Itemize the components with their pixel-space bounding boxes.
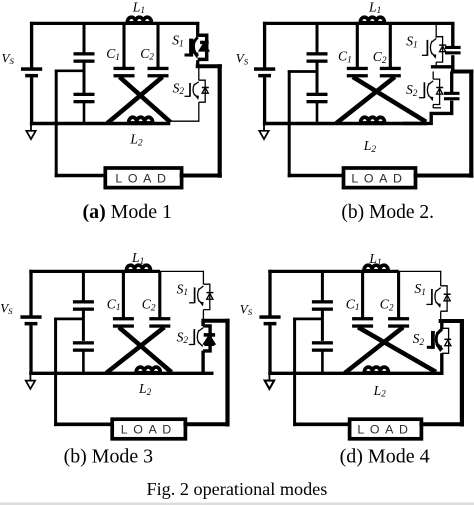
voltage source VS battery mode4 <box>259 315 280 325</box>
scan artifact bottom edge <box>0 503 474 505</box>
wire cross diagonal 2 mode2 <box>336 77 395 123</box>
capacitor C1 mode2 <box>347 67 368 78</box>
inductor L1 mode1 <box>127 17 151 25</box>
switch S2 IGBT bold mode4 <box>427 328 451 353</box>
wire S2 return mode1 <box>169 120 199 122</box>
capacitor C1 mode1 <box>114 67 135 78</box>
wire cross diagonal 2 mode4 <box>345 327 403 373</box>
wire filter cap column mode1 <box>83 23 86 52</box>
wire mid node horizontal mode1 <box>55 69 84 72</box>
svg-text:L2: L2 <box>129 132 143 149</box>
load block mode1 <box>105 168 181 188</box>
wire S2 rail top mode4 <box>440 321 443 329</box>
wire mid node column mode3 <box>54 318 57 427</box>
capacitor C2 mode1 <box>148 67 169 78</box>
wire cross diagonal 1 mode4 <box>358 327 436 372</box>
capacitor input lower mode1 <box>74 93 95 104</box>
svg-text:S1: S1 <box>414 281 425 298</box>
svg-text:C2: C2 <box>373 49 387 66</box>
wire source column bottom mode2 <box>263 77 266 125</box>
wire S1 rail top mode1 <box>196 22 199 37</box>
ground symbol mode2 <box>259 131 268 139</box>
capacitor C2 mode4 <box>388 317 409 328</box>
wire mid node horizontal mode4 <box>293 318 322 321</box>
wire output rail mode3 <box>225 319 229 427</box>
wire filter cap to bottom mode3 <box>82 352 85 374</box>
wire between filter caps mode1 <box>83 62 86 93</box>
wire ground stub mode1 <box>30 124 32 132</box>
wire bottom rail mode4 <box>268 372 443 375</box>
wire S2 rail top mode3 <box>201 321 204 326</box>
wire load right mode4 <box>419 422 464 426</box>
wire cross diagonal 1 mode1 <box>120 77 171 122</box>
wire junction bar mode2 <box>451 70 474 74</box>
wire between filter caps mode2 <box>316 62 319 93</box>
switch S2 IGBT mode2 <box>419 79 443 104</box>
svg-text:S1: S1 <box>172 33 183 50</box>
svg-text:C1: C1 <box>106 46 120 63</box>
switch S1 IGBT mode2 <box>422 37 446 62</box>
wire S1 rail top mode3 <box>202 271 204 285</box>
wire junction bar mode1 <box>196 64 222 68</box>
wire bottom rail mode2 <box>263 122 427 125</box>
wire main rail lower mode2 <box>451 55 454 73</box>
wire C2 column mode2 <box>389 23 392 67</box>
wire source column top mode4 <box>268 270 271 316</box>
ground symbol mode3 <box>26 381 35 389</box>
capacitor C2 mode2 <box>380 67 401 78</box>
switch S1 IGBT bold mode1 <box>185 35 209 59</box>
wire output rail mode1 <box>218 64 222 178</box>
wire staircase to bottom mode2 <box>402 101 452 124</box>
wire S2 rail bottom mode1 <box>198 102 200 121</box>
wire source column top mode2 <box>263 22 266 68</box>
svg-text:C1: C1 <box>107 296 121 313</box>
capacitor input upper mode1 <box>74 52 95 63</box>
wire S1 junction bar mode2 <box>431 65 453 68</box>
wire S2 rail bottom mode3 <box>201 351 204 375</box>
wire mid node horizontal mode3 <box>54 318 83 321</box>
capacitor input lower mode2 <box>307 93 328 104</box>
wire filter cap to bottom mode1 <box>83 103 86 124</box>
capacitor snubber CS2 mode2 <box>444 92 460 100</box>
svg-text:C2: C2 <box>140 46 154 63</box>
wire load left mode1 <box>55 174 108 178</box>
wire mid node column mode1 <box>55 70 58 178</box>
switch S1 IGBT mode3 <box>189 284 213 309</box>
wire ground stub mode4 <box>268 373 270 381</box>
switch S2 IGBT bold-diode mode3 <box>189 326 215 351</box>
capacitor snubber CS1 mode2 <box>445 46 461 54</box>
capacitor input lower mode4 <box>312 341 333 352</box>
wire load right mode1 <box>180 174 222 178</box>
voltage source VS battery mode1 <box>21 67 42 77</box>
capacitor input upper mode2 <box>307 52 328 63</box>
wire cross diagonal 2 mode3 <box>106 327 164 373</box>
svg-text:S1: S1 <box>406 34 417 51</box>
wire top rail mode4 <box>268 270 399 273</box>
svg-text:LOAD: LOAD <box>121 423 177 437</box>
wire load left mode3 <box>54 422 114 426</box>
wire mid node column mode4 <box>293 318 296 427</box>
wire S2 rail bottom mode4 <box>440 353 443 375</box>
wire source column top mode1 <box>30 22 33 68</box>
inductor L1 mode3 <box>126 265 150 273</box>
svg-text:L2: L2 <box>363 138 377 155</box>
wire source column bottom mode3 <box>29 325 32 375</box>
wire S2 emitter link mode2 <box>433 107 441 109</box>
svg-text:L2: L2 <box>373 383 387 400</box>
wire main rail upper mode2 <box>451 22 454 47</box>
svg-text:LOAD: LOAD <box>351 171 407 185</box>
wire cross diagonal 2 mode1 <box>107 77 162 123</box>
wire top rail mode1 <box>30 22 199 25</box>
capacitor input upper mode4 <box>312 300 333 311</box>
svg-text:VS: VS <box>236 51 249 67</box>
inductor L2 mode1 <box>129 117 153 125</box>
wire junction bar mode3 <box>201 319 229 323</box>
switch S1 IGBT mode4 <box>426 286 450 311</box>
wire C1 column mode4 <box>361 271 364 318</box>
wire S1 rail bottom mode1 <box>196 60 199 68</box>
svg-text:VS: VS <box>2 50 15 66</box>
inductor L2 mode3 <box>136 367 160 375</box>
voltage source VS battery mode2 <box>254 67 275 77</box>
wire S2 tap mode2 <box>432 72 434 80</box>
svg-text:C2: C2 <box>380 297 394 314</box>
capacitor C2 mode3 <box>149 317 170 328</box>
inductor L2 mode2 <box>361 117 385 125</box>
svg-text:C1: C1 <box>346 296 360 313</box>
wire ground stub mode3 <box>29 373 31 381</box>
load block mode3 <box>112 419 185 439</box>
svg-text:VS: VS <box>0 300 13 316</box>
wire mid node column mode2 <box>288 70 291 177</box>
wire C2 column mode4 <box>397 271 400 318</box>
wire top rail mode3 <box>29 270 160 273</box>
svg-text:(b) Mode 3: (b) Mode 3 <box>64 446 154 468</box>
wire load right mode2 <box>414 174 474 178</box>
wire S1 emitter stub mode2 <box>435 62 437 67</box>
wire S1 rail top mode4 <box>440 271 442 286</box>
wire bottom rail mode1 <box>30 122 170 125</box>
wire cross diagonal 1 mode2 <box>353 77 426 122</box>
capacitor C1 mode3 <box>113 317 134 328</box>
wire thin top segment mode4 <box>399 270 442 272</box>
capacitor C1 mode4 <box>352 317 373 328</box>
svg-text:S2: S2 <box>406 82 418 99</box>
svg-text:L1: L1 <box>132 0 145 16</box>
wire C2 column mode1 <box>156 23 159 67</box>
voltage source VS battery mode3 <box>20 315 41 325</box>
svg-text:C2: C2 <box>142 297 156 314</box>
wire filter cap to bottom mode2 <box>316 103 319 124</box>
svg-text:L2: L2 <box>138 381 152 398</box>
wire cross diagonal 1 mode3 <box>119 327 172 372</box>
wire C1 column mode3 <box>122 271 125 318</box>
wire filter cap column mode4 <box>321 271 324 300</box>
inductor L1 mode2 <box>360 17 384 25</box>
wire output rail mode4 <box>460 319 464 427</box>
svg-text:(a) Mode 1: (a) Mode 1 <box>83 201 173 223</box>
wire junction bar mode4 <box>439 319 464 323</box>
wire load left mode4 <box>293 422 352 426</box>
wire output rail mode2 <box>469 70 473 178</box>
wire load right mode3 <box>183 422 229 426</box>
wire S1 rail bottom mode3 <box>202 310 204 320</box>
inductor L2 mode4 <box>364 367 388 375</box>
svg-text:S1: S1 <box>177 281 188 298</box>
wire between filter caps mode4 <box>321 310 324 341</box>
svg-text:S2: S2 <box>413 331 425 348</box>
svg-text:L1: L1 <box>368 251 381 268</box>
wire source column bottom mode1 <box>30 77 33 125</box>
wire filter cap column mode2 <box>316 23 319 52</box>
wire mid node horizontal mode2 <box>288 70 317 73</box>
wire S2 rail top mode1 <box>198 68 200 81</box>
wire thin top segment mode3 <box>160 270 204 272</box>
wire filter cap to bottom mode4 <box>321 352 324 374</box>
svg-text:S2: S2 <box>177 329 189 346</box>
wire bottom rail mode3 <box>29 372 213 375</box>
capacitor input upper mode3 <box>73 300 94 311</box>
svg-text:S2: S2 <box>173 80 185 97</box>
wire filter cap column mode3 <box>82 271 85 300</box>
svg-text:LOAD: LOAD <box>357 423 413 437</box>
wire C1 column mode2 <box>356 23 359 67</box>
load block mode2 <box>344 168 416 188</box>
load block mode4 <box>350 419 422 439</box>
wire C1 column mode1 <box>122 23 125 67</box>
svg-text:L1: L1 <box>368 0 381 16</box>
wire S1 rail bottom mode4 <box>440 311 442 320</box>
capacitor input lower mode3 <box>73 341 94 352</box>
wire source column top mode3 <box>29 270 32 316</box>
svg-text:VS: VS <box>240 301 253 317</box>
wire load left mode2 <box>288 174 346 178</box>
svg-text:LOAD: LOAD <box>115 171 171 185</box>
wire C2 column mode3 <box>158 271 161 318</box>
wire ground stub mode2 <box>263 124 265 132</box>
ground symbol mode4 <box>265 381 274 389</box>
svg-text:C1: C1 <box>338 49 352 66</box>
svg-text:L1: L1 <box>131 250 144 267</box>
wire CS2 top stub mode2 <box>450 72 453 93</box>
svg-text:(b) Mode 2.: (b) Mode 2. <box>341 202 434 223</box>
inductor L1 mode4 <box>364 265 388 273</box>
wire between filter caps mode3 <box>82 310 85 341</box>
wire source column bottom mode4 <box>268 325 271 375</box>
wire S2 emitter stub mode2 <box>432 105 434 109</box>
ground symbol mode1 <box>26 131 35 139</box>
svg-text:Fig. 2 operational modes: Fig. 2 operational modes <box>147 479 328 499</box>
svg-text:(d) Mode 4: (d) Mode 4 <box>340 446 430 468</box>
switch S2 IGBT mode1 <box>185 80 209 102</box>
wire top rail mode2 <box>263 22 455 25</box>
wire S1 tap mode2 <box>435 22 437 38</box>
